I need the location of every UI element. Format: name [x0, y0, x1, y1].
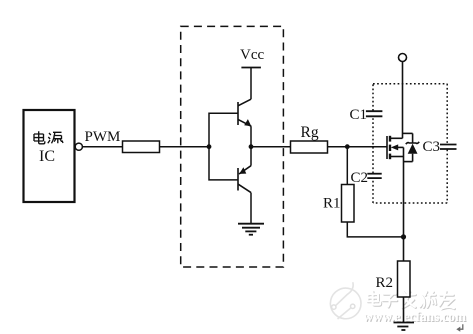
resistor Rg: [291, 141, 328, 153]
wire: pin to input resistor: [82, 146, 122, 148]
transistor Q1 (NPN, upper): [238, 99, 251, 126]
ground (driver stage): [238, 224, 264, 235]
MOSFET parasitic model dotted box: [373, 84, 447, 203]
wire: Rg to gate (through gate junction): [328, 146, 388, 148]
wire: base junction up to Q1 base: [209, 113, 238, 147]
capacitor C1 (gate-drain): [366, 111, 383, 116]
wire: output node down to Q2 emitter: [250, 147, 252, 166]
svg-text:C2: C2: [351, 170, 369, 186]
svg-text:www.elecfans.com: www.elecfans.com: [363, 309, 466, 324]
wire: source node to R2: [403, 237, 405, 261]
resistor (series, unlabeled): [123, 141, 160, 153]
svg-text:Vcc: Vcc: [240, 47, 264, 63]
Vcc supply bar: [241, 67, 261, 69]
watermark text www.elecfans.com: [363, 309, 467, 325]
svg-text:R1: R1: [323, 196, 341, 212]
capacitor C2 (gate-source): [367, 174, 381, 178]
wire: output node to Rg: [251, 146, 291, 148]
svg-text:R2: R2: [376, 275, 394, 291]
label 电源 (power): [34, 131, 63, 144]
wire: gate junction down to R1: [346, 147, 348, 185]
ground (source return): [394, 323, 415, 331]
capacitor C3 (drain-source): [440, 145, 457, 150]
watermark text 电子发烧友: [368, 291, 455, 309]
wire: R1 bottom to source node: [347, 222, 403, 237]
wire: base junction down to Q2 base: [209, 147, 238, 180]
resistor R2: [398, 261, 411, 297]
svg-text:PWM: PWM: [85, 129, 121, 145]
watermark logo (elecfans): [330, 282, 361, 319]
node: source node: [401, 234, 406, 239]
node: base junction: [207, 144, 212, 149]
terminal pin of power IC: [75, 143, 82, 150]
body diode D (with loop wires): [403, 133, 420, 161]
node: output node of driver: [249, 144, 254, 149]
node: gate junction: [345, 144, 350, 149]
wire: Vcc bar to Q1 collector: [250, 68, 252, 100]
terminal: drain (top): [399, 54, 407, 62]
wire: Q1 emitter to output node: [250, 126, 252, 146]
wire: MOSFET source vertical down to source node: [403, 147, 405, 237]
transistor Q2 (PNP, lower): [238, 166, 251, 193]
pilcrow return mark: [456, 324, 463, 332]
wire: Q2 collector to ground: [250, 193, 252, 224]
wire: drain terminal down to MOSFET drain: [402, 62, 404, 139]
driver stage dashed box: [181, 26, 284, 267]
power IC box: [24, 110, 75, 202]
MOSFET Q3 (N-channel with body diode): [387, 136, 404, 159]
svg-text:C1: C1: [350, 107, 368, 123]
svg-text:C3: C3: [423, 139, 441, 155]
wire: input resistor to base junction: [160, 146, 210, 148]
svg-text:IC: IC: [39, 148, 55, 165]
resistor R1: [342, 185, 355, 223]
wire: R2 to ground: [403, 297, 405, 323]
svg-text:Rg: Rg: [301, 124, 319, 141]
